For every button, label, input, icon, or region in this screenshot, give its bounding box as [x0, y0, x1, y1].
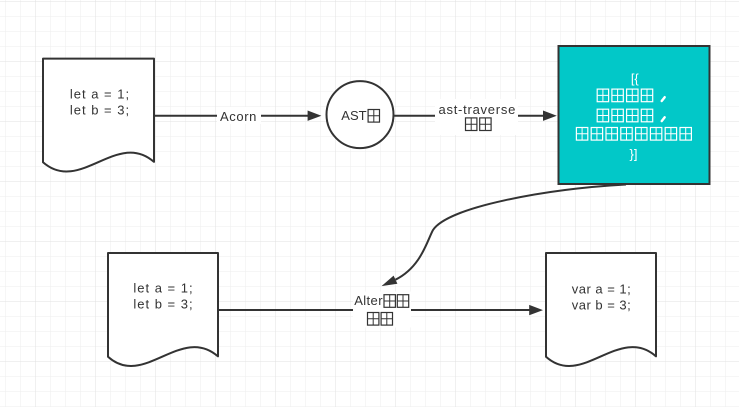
svg-text:let b = 3;: let b = 3; [70, 103, 130, 118]
svg-text:var a = 1;: var a = 1; [572, 282, 632, 297]
document shape: source code "let a = 1; let b = 3;" (top left) [43, 59, 154, 172]
svg-text:let a = 1;: let a = 1; [133, 281, 193, 296]
glyph 遍 [466, 118, 477, 131]
label: ast-traverse 遍历 (on arrow) [435, 99, 518, 135]
label: Alter方法 替换 (on arrow) [353, 292, 411, 328]
circle node: AST树 [327, 81, 394, 148]
glyph 替 [368, 313, 379, 326]
row: 要替换成的字符串 [576, 128, 691, 141]
glyph 历 [480, 118, 491, 131]
glyph 法 [397, 295, 408, 308]
svg-text:ast-traverse: ast-traverse [438, 102, 516, 117]
svg-text:Acorn: Acorn [220, 109, 257, 124]
row: 结束位置， [597, 109, 665, 122]
wire: arrow from AST circle to result box [394, 111, 557, 121]
label: Acorn (on arrow) [217, 107, 261, 124]
svg-text:}]: }] [630, 147, 638, 162]
glyph 树 [368, 110, 379, 123]
svg-text:var b = 3;: var b = 3; [572, 298, 632, 313]
svg-text:[{: [{ [631, 71, 640, 86]
wire: curved arrow from teal box down to Alter label [382, 185, 627, 287]
wire: arrow from top-left document to AST circle [154, 111, 321, 121]
document shape: source "let a = 1; let b = 3;" (bottom left) [108, 253, 218, 366]
svg-text:let b = 3;: let b = 3; [133, 297, 193, 312]
teal result box: [{ 开始位置，结束位置，要替换成的字符串 }] [559, 46, 710, 184]
document shape: output "var a = 1; var b = 3;" (bottom right) [546, 253, 656, 366]
svg-text:let a = 1;: let a = 1; [70, 87, 130, 102]
wire: arrow from bottom-left document to output document [218, 305, 543, 315]
svg-text:Alter: Alter [354, 293, 383, 308]
glyph 方 [384, 295, 395, 308]
svg-text:AST: AST [341, 108, 366, 123]
glyph 换 [381, 313, 392, 326]
row: 开始位置， [597, 89, 665, 102]
